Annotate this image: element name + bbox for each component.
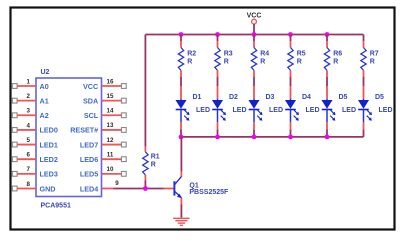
U2 pin 8 (GND) wire + terminal bbox=[12, 181, 36, 191]
junction bottom rail / D1 bbox=[179, 135, 184, 140]
wire Q1 emitter to ground bbox=[180, 198, 182, 218]
svg-text:R3: R3 bbox=[224, 50, 233, 57]
wire D3 to bottom rail bbox=[253, 122, 255, 137]
transistor Q1 PBSS2525F bbox=[174, 177, 182, 199]
wire R2 to D1 bbox=[180, 70, 182, 99]
svg-text:2: 2 bbox=[27, 93, 31, 100]
U2 pin 6 (LED2) wire + terminal bbox=[12, 152, 36, 162]
wire rail to R2 bbox=[180, 35, 182, 48]
wire D5 to bottom rail bbox=[363, 122, 365, 137]
junction top rail / R3 bbox=[215, 32, 220, 37]
resistor R6 bbox=[324, 48, 329, 71]
svg-text:R7: R7 bbox=[370, 50, 379, 57]
LED D5 bbox=[322, 99, 336, 123]
svg-text:16: 16 bbox=[107, 78, 114, 85]
U2 pin 12 (LED7) wire + terminal bbox=[102, 137, 127, 147]
svg-text:12: 12 bbox=[107, 137, 114, 144]
wire D1 to bottom rail bbox=[180, 122, 182, 137]
LED D2 bbox=[212, 99, 226, 123]
wire rail to R4 bbox=[253, 35, 255, 48]
svg-text:6: 6 bbox=[27, 152, 31, 159]
svg-text:LED4: LED4 bbox=[80, 184, 98, 193]
resistor R3 bbox=[215, 48, 220, 71]
wire U2 pin9 LED4 to Q1 base bbox=[114, 188, 174, 190]
wire LED cathode bottom rail bbox=[181, 136, 364, 138]
U2 pin 5 (LED1) wire + terminal bbox=[12, 137, 36, 147]
U2 pin 13 (RESET#) wire + terminal bbox=[102, 122, 127, 132]
svg-text:7: 7 bbox=[27, 166, 31, 173]
resistor R2 bbox=[178, 48, 183, 71]
wire rail to R7 bbox=[363, 35, 365, 48]
wire D5 to bottom rail bbox=[326, 122, 328, 137]
wire rail to R3 bbox=[217, 35, 219, 48]
svg-text:LED0: LED0 bbox=[40, 126, 58, 135]
junction bottom rail / D2 bbox=[215, 135, 220, 140]
svg-text:D2: D2 bbox=[229, 94, 238, 101]
svg-text:LED5: LED5 bbox=[80, 170, 98, 179]
svg-text:D1: D1 bbox=[193, 94, 202, 101]
svg-text:R: R bbox=[333, 58, 338, 65]
resistor R4 bbox=[251, 48, 256, 71]
svg-text:R4: R4 bbox=[260, 50, 269, 57]
wire R4 to D3 bbox=[253, 70, 255, 99]
wire VCC rail to R1 bbox=[144, 35, 146, 152]
svg-text:LED: LED bbox=[342, 107, 356, 114]
wire rail to R5 bbox=[290, 35, 292, 48]
svg-text:RESET#: RESET# bbox=[70, 126, 98, 135]
svg-text:R: R bbox=[151, 161, 156, 168]
svg-text:SDA: SDA bbox=[83, 96, 98, 105]
svg-text:LED: LED bbox=[306, 107, 320, 114]
svg-text:3: 3 bbox=[27, 108, 31, 115]
resistor R5 bbox=[288, 48, 293, 71]
U2 pin 7 (LED3) wire + terminal bbox=[12, 166, 36, 176]
svg-text:R: R bbox=[370, 58, 375, 65]
svg-text:5: 5 bbox=[27, 137, 31, 144]
LED D1 bbox=[176, 99, 190, 123]
svg-text:LED7: LED7 bbox=[80, 140, 98, 149]
junction bottom rail / D5 bbox=[325, 135, 330, 140]
junction base net / R1 bbox=[143, 186, 148, 191]
U2 pin 11 (LED6) wire + terminal bbox=[102, 152, 127, 162]
svg-text:R5: R5 bbox=[297, 50, 306, 57]
junction bottom rail / D3 bbox=[252, 135, 257, 140]
wire R6 to D5 bbox=[326, 70, 328, 99]
resistor R1 bbox=[143, 152, 148, 175]
svg-text:9: 9 bbox=[115, 180, 119, 187]
junction top rail / R6 bbox=[325, 32, 330, 37]
svg-text:LED3: LED3 bbox=[40, 170, 58, 179]
svg-text:1: 1 bbox=[27, 78, 31, 85]
svg-text:SCL: SCL bbox=[84, 111, 99, 120]
svg-text:10: 10 bbox=[107, 166, 114, 173]
ground symbol bbox=[173, 218, 189, 225]
svg-text:LED6: LED6 bbox=[80, 155, 98, 164]
svg-text:R: R bbox=[224, 58, 229, 65]
IC U2 PCA9551 body bbox=[36, 78, 102, 197]
svg-text:13: 13 bbox=[107, 122, 114, 129]
svg-text:U2: U2 bbox=[41, 69, 50, 76]
resistor R7 bbox=[361, 48, 366, 71]
svg-text:R1: R1 bbox=[151, 154, 160, 161]
junction top rail / R4 bbox=[252, 32, 257, 37]
U2 pin 14 (SCL) wire + terminal bbox=[102, 108, 127, 118]
wire R3 to D2 bbox=[217, 70, 219, 99]
U2 pin 9 (LED4) wire + terminal bbox=[102, 180, 120, 189]
power symbol VCC bbox=[247, 13, 262, 35]
wire R1 to base net bbox=[144, 175, 146, 189]
wire D2 to bottom rail bbox=[217, 122, 219, 137]
svg-text:LED: LED bbox=[233, 107, 247, 114]
svg-text:LED: LED bbox=[269, 107, 283, 114]
svg-text:14: 14 bbox=[107, 108, 114, 115]
wire R5 to D4 bbox=[290, 70, 292, 99]
svg-text:R: R bbox=[187, 58, 192, 65]
U2 pin 1 (A0) wire + terminal bbox=[12, 78, 36, 88]
svg-text:A1: A1 bbox=[40, 96, 49, 105]
svg-text:R6: R6 bbox=[333, 50, 342, 57]
svg-text:LED1: LED1 bbox=[40, 140, 58, 149]
svg-text:GND: GND bbox=[40, 184, 56, 193]
svg-text:R2: R2 bbox=[187, 50, 196, 57]
wire bottom rail to Q1 collector bbox=[180, 137, 182, 177]
svg-text:LED: LED bbox=[379, 107, 393, 114]
svg-text:VCC: VCC bbox=[83, 82, 98, 91]
U2 pin 16 (VCC) wire + terminal bbox=[102, 78, 127, 88]
svg-text:D4: D4 bbox=[302, 94, 311, 101]
wire D4 to bottom rail bbox=[290, 122, 292, 137]
wire rail to R6 bbox=[326, 35, 328, 48]
U2 pin 10 (LED5) wire + terminal bbox=[102, 166, 127, 176]
svg-text:15: 15 bbox=[107, 93, 114, 100]
LED D5 bbox=[358, 99, 372, 123]
svg-text:11: 11 bbox=[107, 152, 114, 159]
svg-text:8: 8 bbox=[27, 181, 31, 188]
svg-text:4: 4 bbox=[27, 122, 31, 129]
svg-text:R: R bbox=[260, 58, 265, 65]
wire R7 to D5 bbox=[363, 70, 365, 99]
svg-text:D5: D5 bbox=[375, 94, 384, 101]
LED D3 bbox=[249, 99, 263, 123]
junction top rail / R5 bbox=[288, 32, 293, 37]
svg-text:A2: A2 bbox=[40, 111, 49, 120]
svg-text:PBSS2525F: PBSS2525F bbox=[189, 189, 229, 196]
junction top rail / R2 bbox=[179, 32, 184, 37]
svg-text:D3: D3 bbox=[266, 94, 275, 101]
svg-text:A0: A0 bbox=[40, 82, 49, 91]
U2 pin 15 (SDA) wire + terminal bbox=[102, 93, 127, 103]
svg-text:PCA9551: PCA9551 bbox=[41, 203, 71, 210]
svg-text:D5: D5 bbox=[339, 94, 348, 101]
svg-text:LED: LED bbox=[196, 107, 210, 114]
wire VCC top rail bbox=[145, 34, 363, 36]
junction bottom rail / D4 bbox=[288, 135, 293, 140]
svg-text:LED2: LED2 bbox=[40, 155, 58, 164]
svg-text:R: R bbox=[297, 58, 302, 65]
U2 pin 3 (A2) wire + terminal bbox=[12, 108, 36, 118]
U2 pin 2 (A1) wire + terminal bbox=[12, 93, 36, 103]
LED D4 bbox=[285, 99, 299, 123]
U2 pin 4 (LED0) wire + terminal bbox=[12, 122, 36, 132]
